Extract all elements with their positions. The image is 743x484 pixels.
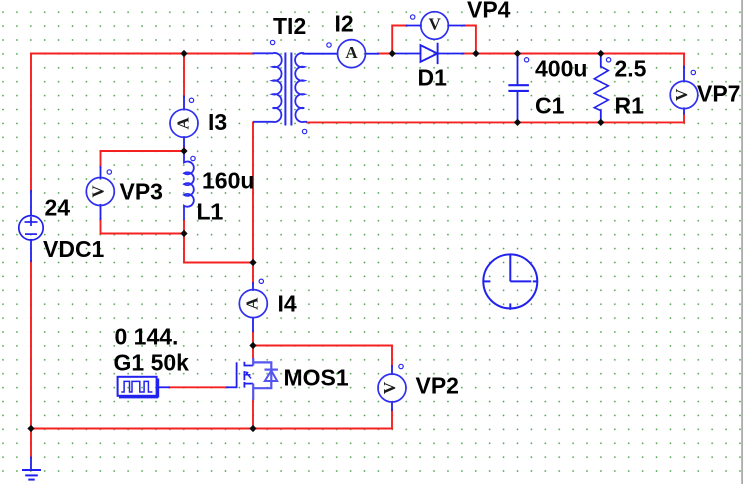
body diode bar bbox=[265, 369, 278, 371]
svg-text:L1: L1 bbox=[197, 199, 224, 225]
svg-text:160u: 160u bbox=[202, 168, 254, 194]
lead VP3 bbox=[100, 167, 102, 178]
polarity dot VP7 bbox=[691, 70, 695, 74]
wire I3 to node bbox=[183, 147, 185, 152]
svg-text:G1 50k: G1 50k bbox=[114, 350, 190, 376]
body diode loop bbox=[253, 362, 271, 388]
wire L1 node to center bbox=[184, 234, 253, 263]
junction I2 / D1 / VP4 bbox=[389, 50, 396, 57]
wire I2 to node bbox=[378, 53, 392, 55]
svg-text:V: V bbox=[428, 15, 441, 34]
polarity dot TI2 secondary bbox=[302, 129, 306, 133]
lead D1 bbox=[392, 53, 420, 55]
svg-text:D1: D1 bbox=[418, 65, 448, 91]
gate bar bbox=[236, 362, 238, 387]
lead VP4 bbox=[407, 25, 421, 27]
trunk bbox=[252, 358, 254, 366]
junction top rail / I3 branch bbox=[180, 50, 187, 57]
wire I3 feed bbox=[183, 54, 185, 97]
svg-text:VP3: VP3 bbox=[120, 179, 163, 205]
svg-text:2.5: 2.5 bbox=[615, 56, 647, 82]
svg-text:400u: 400u bbox=[535, 56, 587, 82]
capacitor C1 bbox=[508, 85, 529, 91]
svg-text:V: V bbox=[380, 381, 399, 394]
gate source G1 bbox=[118, 377, 159, 398]
lead VP7 bbox=[683, 67, 685, 82]
source stub bbox=[244, 383, 253, 385]
polarity dot VP2 bbox=[399, 364, 403, 368]
lead I3 bbox=[183, 97, 185, 110]
core bbox=[284, 53, 286, 126]
voltmeter VP4 bbox=[421, 12, 449, 40]
lead VP2 bbox=[391, 366, 393, 374]
junction L1 / primary bottom bbox=[249, 259, 256, 266]
junction C1 top bbox=[514, 50, 521, 57]
inductor L1 bbox=[184, 151, 194, 220]
junction MOS1 source / bottom rail bbox=[249, 425, 256, 432]
wire I4 to drain node bbox=[252, 331, 254, 358]
lead R1 bbox=[600, 54, 602, 67]
polarity dot I2 bbox=[327, 43, 331, 47]
wire D1 cathode to node bbox=[463, 53, 476, 55]
wire bottom rail bbox=[31, 428, 392, 430]
wire VP4 right riser bbox=[464, 26, 476, 54]
channel segments bbox=[243, 362, 245, 367]
voltmeter VP2 bbox=[378, 374, 406, 402]
voltmeter VP7 bbox=[670, 81, 698, 109]
junction R1 bottom bbox=[597, 119, 604, 126]
polarity dot TI2 primary bbox=[270, 40, 274, 44]
svg-text:V: V bbox=[88, 185, 107, 198]
drain stub bbox=[244, 365, 253, 367]
svg-text:I2: I2 bbox=[335, 11, 354, 37]
transformer TI2 bbox=[253, 53, 308, 126]
svg-text:A: A bbox=[243, 297, 262, 310]
polarity dot R1 bbox=[606, 58, 610, 62]
junction ground node bbox=[27, 425, 34, 432]
wire VP7 risers bbox=[683, 54, 685, 67]
ammeter I2 bbox=[338, 40, 366, 68]
wire mos source down bbox=[252, 400, 254, 429]
voltmeter VP3 bbox=[86, 178, 114, 206]
polarity dot I3 bbox=[189, 98, 193, 102]
clock bbox=[483, 254, 537, 309]
wire ground drop bbox=[30, 429, 32, 458]
svg-text:C1: C1 bbox=[535, 93, 565, 119]
wire VP2 loop bbox=[253, 346, 392, 367]
junction R1 top bbox=[597, 50, 604, 57]
wire VP4 left riser bbox=[392, 26, 407, 54]
svg-text:MOS1: MOS1 bbox=[284, 365, 349, 391]
junction MOS1 drain / VP2 bbox=[249, 342, 256, 349]
wire VP3 loop bbox=[101, 151, 185, 167]
ammeter I3 bbox=[170, 109, 198, 137]
svg-text:I4: I4 bbox=[278, 291, 297, 317]
polarity dot C1 bbox=[524, 58, 528, 62]
lead I4 bbox=[252, 283, 254, 290]
ammeter I4 bbox=[239, 290, 267, 318]
svg-text:TI2: TI2 bbox=[273, 13, 306, 39]
lead G1 bbox=[158, 386, 170, 388]
wire primary bottom vertical bbox=[252, 122, 254, 283]
svg-text:R1: R1 bbox=[615, 93, 645, 119]
wire G1 out bbox=[169, 386, 227, 388]
svg-text:VDC1: VDC1 bbox=[43, 236, 105, 262]
secondary winding bbox=[295, 53, 307, 122]
polarity dot L1 bbox=[191, 156, 195, 160]
wire top-left horizontal bbox=[31, 54, 253, 192]
polarity dot VP3 bbox=[107, 170, 111, 174]
svg-text:0 144.: 0 144. bbox=[115, 324, 179, 350]
svg-text:VP7: VP7 bbox=[697, 81, 740, 107]
ground stem bbox=[30, 458, 32, 471]
junction L1 bottom / VP3 bbox=[180, 230, 187, 237]
lead C1 bbox=[517, 54, 519, 86]
resistor R1 bbox=[594, 67, 608, 111]
polarity dot VP4 bbox=[411, 15, 415, 19]
lead VDC1 bbox=[30, 191, 32, 216]
junction L1 top / VP3 bbox=[180, 147, 187, 154]
primary winding bbox=[253, 53, 282, 122]
svg-text:VP2: VP2 bbox=[416, 373, 459, 399]
window right border bbox=[741, 0, 743, 484]
body diode triangle bbox=[265, 371, 277, 381]
svg-text:I3: I3 bbox=[208, 109, 227, 135]
junction D1 cathode / VP4 bbox=[472, 50, 479, 57]
svg-text:VP4: VP4 bbox=[467, 0, 511, 23]
svg-text:24: 24 bbox=[45, 195, 71, 221]
ground bbox=[22, 470, 41, 480]
wire L1 bottom bbox=[183, 220, 185, 234]
junction C1 bottom bbox=[514, 119, 521, 126]
polarity dot I4 bbox=[259, 279, 263, 283]
lead I2 bbox=[303, 53, 337, 55]
svg-text:A: A bbox=[173, 116, 192, 129]
wire secondary bottom rail bbox=[307, 121, 684, 123]
wire left vertical lower bbox=[30, 261, 32, 429]
svg-text:V: V bbox=[672, 88, 691, 101]
source VDC1 bbox=[19, 216, 43, 240]
svg-text:A: A bbox=[345, 43, 358, 62]
diode D1 bbox=[421, 43, 438, 64]
body stub + arrow bbox=[244, 374, 250, 376]
wire top output rail bbox=[476, 53, 684, 55]
mosfet MOS1 bbox=[237, 358, 278, 400]
